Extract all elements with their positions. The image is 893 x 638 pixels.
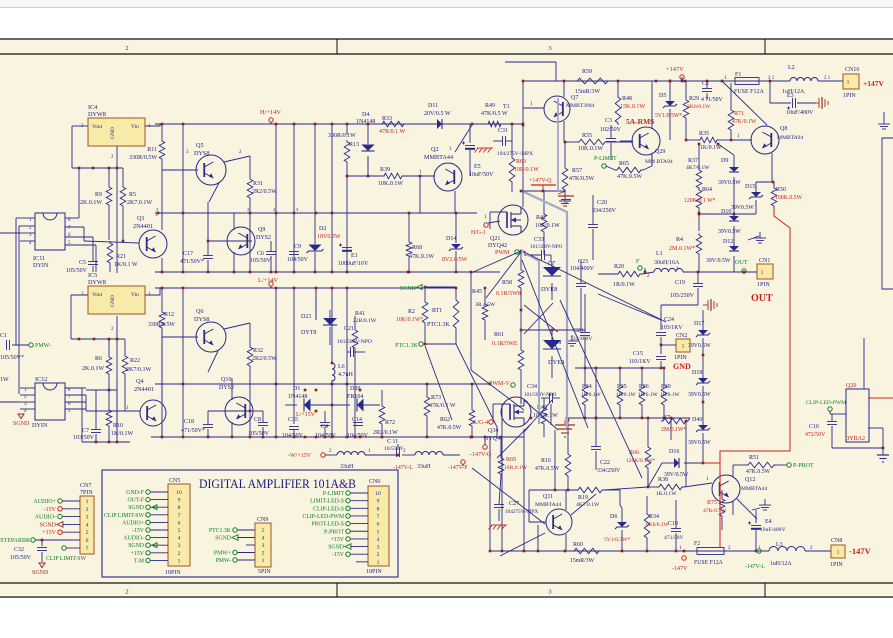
capacitor C3: [600, 118, 622, 160]
svg-text:1R/0.1W: 1R/0.1W: [638, 392, 659, 398]
wire interconnect 3: [511, 123, 514, 141]
svg-text:L3: L3: [776, 542, 783, 548]
wire OUT rail: [598, 272, 757, 274]
svg-text:R61: R61: [494, 332, 504, 338]
svg-text:2K7.0.1W: 2K7.0.1W: [127, 200, 152, 206]
svg-text:C21: C21: [344, 326, 354, 332]
wire bottom rail H: [155, 271, 500, 273]
svg-text:5: 5: [377, 529, 380, 535]
svg-text:FR104: FR104: [347, 394, 363, 400]
resistor R64: [684, 187, 716, 231]
resistor R50: [756, 181, 803, 208]
svg-text:105/50V: 105/50V: [10, 555, 32, 561]
zener D5: [655, 80, 682, 140]
transistor Q29: [620, 81, 673, 166]
resistor R16: [535, 419, 571, 492]
junction D-chain mid: [698, 213, 756, 216]
resistor R42: [535, 191, 560, 255]
svg-text:5: 5: [86, 530, 89, 536]
thermistor RT1: [424, 286, 459, 346]
svg-text:Q7: Q7: [571, 95, 578, 101]
fuse F2: [679, 541, 731, 566]
svg-text:-147V-L: -147V-L: [745, 564, 765, 570]
svg-text:R58: R58: [502, 280, 512, 286]
wire diag F: [560, 300, 642, 478]
svg-text:47K.0.5W: 47K.0.5W: [617, 174, 642, 180]
svg-text:471/50V*: 471/50V*: [180, 259, 204, 265]
svg-text:0.1R/5WE: 0.1R/5WE: [492, 341, 518, 347]
resistor R55: [564, 133, 633, 152]
svg-text:R37: R37: [688, 158, 698, 164]
svg-text:2M.0.1W*: 2M.0.1W*: [669, 246, 695, 252]
svg-text:E1: E1: [351, 253, 358, 259]
zener D14: [442, 213, 468, 272]
svg-text:D40: D40: [692, 417, 702, 423]
svg-text:1: 1: [761, 270, 764, 276]
resistor R10: [106, 389, 133, 442]
svg-text:P-LIMIT: P-LIMIT: [323, 491, 345, 497]
capacitor C14: [347, 417, 369, 439]
resistor R71: [728, 83, 757, 132]
transistor Q9: [208, 213, 271, 272]
svg-text:10: 10: [176, 490, 182, 496]
wire diag A: [524, 252, 666, 322]
svg-text:6: 6: [178, 520, 181, 526]
resistor R2: [396, 287, 428, 344]
capacitor C17: [180, 202, 213, 272]
capacitor C11: [384, 439, 406, 457]
ground C28: [566, 335, 578, 346]
svg-text:C4: C4: [321, 424, 328, 430]
capacitor C7: [73, 380, 118, 443]
wire diag G: [497, 424, 531, 458]
svg-text:1K/0.1W: 1K/0.1W: [700, 145, 722, 151]
svg-text:AUDIO+: AUDIO+: [33, 499, 56, 505]
svg-text:OUT: OUT: [751, 293, 773, 304]
resistor R45: [470, 271, 496, 370]
resistor R32: [247, 345, 277, 437]
svg-text:1: 1: [682, 344, 685, 350]
svg-text:C3: C3: [605, 118, 612, 124]
svg-text:PROT-LED-S: PROT-LED-S: [311, 522, 344, 528]
inductor L1: [647, 251, 683, 279]
svg-text:AUDIO-: AUDIO-: [35, 515, 56, 521]
wire diag C: [471, 251, 521, 273]
svg-text:1: 1: [86, 499, 89, 505]
svg-text:D5: D5: [659, 93, 666, 99]
svg-text:39V0.5W: 39V0.5W: [731, 205, 754, 211]
capacitor C10: [664, 500, 684, 551]
resistor R6: [82, 339, 112, 390]
zener D16: [648, 448, 704, 487]
svg-text:L1: L1: [656, 251, 663, 257]
capacitor E1: [338, 244, 369, 268]
svg-text:C17: C17: [183, 251, 193, 257]
svg-text:2K7/0.1W: 2K7/0.1W: [126, 367, 152, 373]
svg-text:CLIP-LED-PWM: CLIP-LED-PWM: [806, 400, 846, 406]
svg-text:AUDIO+: AUDIO+: [122, 520, 144, 526]
svg-text:PMW-: PMW-: [35, 343, 51, 349]
capacitor C8: [248, 410, 270, 437]
bus gray vertical: [524, 98, 567, 428]
svg-text:R71: R71: [734, 111, 744, 117]
capacitor E3: [769, 80, 816, 116]
node PTC1.3K: [395, 342, 423, 349]
resistor R19: [556, 487, 620, 508]
svg-text:101/500V-NPO: 101/500V-NPO: [524, 392, 557, 398]
svg-text:D16: D16: [669, 449, 679, 455]
wire D8 row: [520, 329, 585, 332]
node PMW-: [0, 333, 51, 383]
transistor Q2: [404, 104, 510, 213]
capacitor C22: [591, 418, 621, 474]
ground SGND IC12: [13, 414, 30, 427]
svg-text:+147V: +147V: [666, 66, 684, 73]
svg-text:4: 4: [178, 536, 181, 542]
node PWM-V: [489, 381, 515, 420]
svg-text:2N4401: 2N4401: [134, 386, 154, 393]
ground Q7: [559, 195, 571, 206]
resistor R25: [616, 367, 637, 420]
svg-text:+15V: +15V: [42, 530, 56, 536]
svg-text:9: 9: [178, 498, 181, 504]
svg-text:C20: C20: [597, 200, 607, 206]
svg-text:100K.0.5W: 100K.0.5W: [775, 195, 803, 201]
svg-text:L/+15V: L/+15V: [296, 412, 316, 418]
node -147V-P: [448, 460, 467, 471]
wire top rail L: [155, 287, 456, 289]
svg-text:IC11: IC11: [33, 255, 45, 262]
svg-text:47K.0.5W: 47K.0.5W: [437, 425, 462, 431]
inductor L3: [758, 542, 831, 567]
svg-text:-15V: -15V: [332, 552, 345, 558]
resistor R9: [80, 168, 112, 240]
resistor R48: [615, 80, 645, 125]
svg-text:39V/0.5W: 39V/0.5W: [706, 258, 731, 264]
wire diag E: [598, 294, 661, 320]
svg-text:10: 10: [375, 491, 381, 497]
zener D2: [307, 226, 341, 253]
svg-text:C23: C23: [578, 259, 588, 265]
svg-text:R20: R20: [614, 264, 624, 270]
svg-text:R33: R33: [382, 116, 392, 122]
wire red main right: [703, 208, 790, 547]
svg-text:C9: C9: [294, 244, 301, 250]
svg-text:39V0.5W: 39V0.5W: [718, 180, 741, 186]
resistor R49: [481, 103, 523, 127]
svg-text:4.7uH: 4.7uH: [338, 372, 354, 378]
svg-text:5: 5: [178, 528, 181, 534]
ground Q20: [877, 448, 889, 462]
resistor R20: [613, 264, 642, 288]
svg-text:2K.0.1W: 2K.0.1W: [80, 200, 102, 206]
svg-text:7: 7: [86, 546, 89, 552]
svg-text:Vout: Vout: [92, 124, 103, 130]
svg-text:R64: R64: [702, 187, 712, 193]
svg-text:39V0.5W: 39V0.5W: [688, 392, 711, 398]
capacitor C31: [493, 128, 533, 157]
svg-text:CN7: CN7: [80, 483, 91, 489]
svg-text:C6: C6: [257, 251, 264, 257]
capacitor C19: [670, 271, 703, 305]
svg-text:+15V: +15V: [131, 551, 145, 557]
resistor R57: [562, 141, 594, 196]
svg-text:F1: F1: [735, 72, 741, 78]
svg-text:10K.0.1W: 10K.0.1W: [578, 146, 603, 152]
capacitor C35: [282, 417, 304, 439]
svg-text:D9: D9: [721, 158, 728, 164]
capacitor C23: [570, 259, 595, 330]
svg-text:R45: R45: [472, 289, 482, 295]
svg-text:OUT-F: OUT-F: [127, 498, 144, 504]
resistor R39: [346, 156, 422, 187]
svg-text:2K.0.1W: 2K.0.1W: [82, 366, 104, 372]
capacitor C2: [701, 80, 724, 103]
svg-text:CN6: CN6: [369, 479, 380, 485]
wire interconnect 4: [530, 417, 673, 440]
ground E3: [816, 97, 828, 109]
svg-text:1uH/12A: 1uH/12A: [770, 561, 792, 567]
capacitor C20: [588, 195, 617, 260]
svg-text:R9: R9: [95, 192, 102, 198]
svg-text:MMBTA44: MMBTA44: [535, 502, 561, 508]
resistor R75: [703, 490, 727, 530]
svg-text:DYBA2: DYBA2: [845, 436, 865, 442]
wire top rail H: [155, 123, 523, 125]
wire diag M: [651, 153, 653, 166]
node STEPARBR: [0, 538, 80, 544]
wire verticals H block: [183, 124, 347, 272]
wire diag K2: [472, 468, 545, 524]
svg-text:330R/0.1W: 330R/0.1W: [328, 133, 356, 139]
svg-text:R72: R72: [385, 420, 395, 426]
connector CN8: [830, 538, 872, 568]
svg-text:47R/0.1 W: 47R/0.1 W: [379, 129, 406, 135]
svg-text:9: 9: [377, 499, 380, 505]
svg-text:334/250V: 334/250V: [592, 208, 617, 214]
svg-text:R48: R48: [622, 96, 632, 102]
wire diag L: [449, 125, 472, 152]
capacitor C27: [494, 476, 538, 521]
connector CN5: [104, 478, 190, 576]
svg-text:AUDIO-: AUDIO-: [123, 536, 144, 542]
resistor R24: [581, 367, 602, 420]
svg-text:D4: D4: [362, 112, 369, 118]
junctions L: [161, 287, 474, 457]
resistor R63: [509, 140, 539, 192]
right rectangle: [882, 138, 893, 289]
svg-text:2R2/0.1W: 2R2/0.1W: [373, 430, 398, 436]
wire verticals L block: [183, 288, 347, 437]
svg-text:10R/0.1W: 10R/0.1W: [533, 413, 558, 419]
svg-text:1: 1: [178, 558, 181, 564]
svg-text:R69: R69: [506, 457, 516, 463]
svg-text:102/50V: 102/50V: [600, 127, 622, 133]
wire diag D: [486, 252, 521, 298]
svg-text:10PIN: 10PIN: [165, 570, 181, 576]
resistor R41: [352, 311, 377, 437]
wire mid rail H: [155, 207, 477, 213]
svg-text:E5: E5: [474, 164, 481, 170]
resistor R13: [328, 133, 359, 164]
svg-text:D2: D2: [319, 226, 326, 232]
node -147V mid: [672, 550, 688, 572]
transistor Q10: [208, 377, 253, 437]
svg-text:101/500V-NPO: 101/500V-NPO: [530, 244, 563, 250]
connector CN2: [660, 333, 690, 361]
svg-text:4: 4: [262, 536, 265, 542]
svg-text:Q29: Q29: [655, 149, 665, 155]
node +147V-Q: [520, 178, 565, 192]
resistor R51: [733, 455, 787, 475]
svg-text:D14: D14: [446, 236, 456, 242]
svg-text:R6: R6: [95, 356, 102, 362]
svg-text:1: 1: [262, 558, 265, 564]
svg-text:6: 6: [377, 522, 380, 528]
resistor R72: [373, 390, 398, 437]
svg-text:P-PROT: P-PROT: [324, 529, 344, 535]
svg-text:4: 4: [86, 522, 89, 528]
svg-text:105/250V: 105/250V: [670, 293, 695, 299]
regulator IC5: [81, 272, 151, 314]
svg-text:C 11: C 11: [387, 439, 398, 445]
resistor R60: [570, 542, 601, 564]
svg-text:2N4401: 2N4401: [133, 223, 153, 230]
svg-text:PTC1.3K: PTC1.3K: [209, 528, 232, 534]
svg-text:8: 8: [377, 506, 380, 512]
svg-text:OUT: OUT: [735, 259, 748, 266]
svg-text:FUSE F12A: FUSE F12A: [734, 89, 765, 95]
wire diag H: [571, 494, 596, 515]
svg-text:R2: R2: [408, 309, 415, 315]
svg-text:PTC1.3K: PTC1.3K: [427, 322, 451, 328]
svg-text:R31: R31: [253, 181, 263, 187]
svg-text:2: 2: [377, 552, 380, 558]
svg-text:GND-F: GND-F: [126, 490, 144, 496]
svg-text:471/50V*: 471/50V*: [181, 428, 205, 434]
resistor R4: [669, 212, 702, 272]
regulator IC4: [81, 104, 151, 146]
svg-text:-147V: -147V: [672, 566, 688, 572]
wire diag K: [500, 533, 545, 556]
svg-text:334/250V: 334/250V: [597, 468, 621, 474]
wire mid rail L: [86, 406, 140, 411]
svg-text:D17: D17: [694, 321, 704, 327]
svg-text:T-M: T-M: [134, 558, 144, 564]
capacitor C6: [250, 241, 276, 272]
resistor R37: [686, 143, 710, 190]
wire diag B: [522, 260, 588, 428]
svg-text:1PIN: 1PIN: [843, 93, 856, 99]
resistor R43: [533, 398, 558, 437]
svg-text:R49: R49: [485, 103, 495, 109]
svg-text:10K/0.1W*: 10K/0.1W*: [396, 317, 423, 323]
svg-text:+15V: +15V: [331, 537, 345, 543]
resistor R7: [661, 415, 690, 433]
svg-text:CLIP LIMIT-SW: CLIP LIMIT-SW: [104, 513, 145, 519]
svg-text:1000uF/16V: 1000uF/16V: [338, 261, 369, 267]
svg-text:1R/0.1W: 1R/0.1W: [660, 392, 681, 398]
svg-text:8V2.0/5W: 8V2.0/5W: [442, 257, 468, 263]
svg-text:P-PROT: P-PROT: [793, 463, 814, 469]
svg-text:10PIN: 10PIN: [366, 569, 382, 575]
ground E4: [752, 499, 771, 510]
svg-text:1K/0.1 W: 1K/0.1 W: [114, 262, 138, 268]
svg-text:3: 3: [178, 543, 181, 549]
svg-text:C33: C33: [534, 237, 544, 243]
svg-text:R51: R51: [749, 455, 759, 461]
svg-text:R22: R22: [130, 358, 140, 364]
diode D11: [406, 103, 486, 129]
transistor Q7: [523, 80, 594, 142]
svg-text:47K.0.1W: 47K.0.1W: [409, 254, 434, 260]
svg-text:R55: R55: [582, 133, 592, 139]
bus gray diag 2: [566, 212, 568, 428]
resistor R62: [437, 384, 475, 437]
svg-text:C7: C7: [82, 428, 89, 434]
svg-text:SGND: SGND: [328, 545, 344, 551]
svg-text:C19: C19: [675, 280, 685, 286]
svg-text:39V0.5W: 39V0.5W: [718, 229, 741, 235]
svg-text:7: 7: [377, 514, 380, 520]
svg-text:D12: D12: [723, 239, 733, 245]
svg-text:-15V: -15V: [44, 507, 57, 513]
svg-text:C18: C18: [184, 419, 194, 425]
wire rail L mid2: [155, 383, 491, 386]
bus gray diag 1: [521, 251, 539, 424]
wire diag N: [425, 346, 452, 420]
capacitor C15: [629, 351, 651, 365]
svg-text:-147V-Q: -147V-Q: [470, 452, 492, 458]
svg-text:C34: C34: [527, 384, 537, 390]
svg-text:4 71/50V: 4 71/50V: [701, 97, 724, 103]
ground mid: [558, 191, 574, 207]
svg-text:DYS8: DYS8: [194, 316, 209, 323]
transistor Q11: [529, 490, 572, 551]
svg-text:D6: D6: [610, 514, 617, 520]
svg-text:R42: R42: [536, 215, 546, 221]
node L/+15V: [296, 410, 317, 418]
mosfet Q34: [484, 397, 531, 442]
svg-text:105/50V: 105/50V: [250, 258, 272, 264]
svg-text:C8: C8: [254, 417, 261, 423]
svg-text:1N4148: 1N4148: [356, 119, 375, 125]
diode D8: [543, 330, 564, 378]
diode D9: [717, 143, 742, 188]
node P-PROT: [787, 463, 814, 469]
svg-text:4K7/0.1W: 4K7/0.1W: [686, 165, 710, 171]
svg-text:1PIN: 1PIN: [674, 355, 687, 361]
junctions H: [157, 123, 525, 274]
wire interconnect 9: [660, 354, 705, 404]
ground SGND C32: [32, 563, 49, 576]
svg-text:2: 2: [125, 589, 128, 596]
svg-text:R29: R29: [689, 96, 699, 102]
svg-text:DYW8: DYW8: [88, 111, 106, 118]
svg-text:7PIN: 7PIN: [80, 490, 93, 496]
svg-text:DYIN: DYIN: [32, 422, 48, 429]
svg-text:MMBTA44: MMBTA44: [741, 486, 767, 492]
svg-text:1PIN: 1PIN: [830, 562, 843, 568]
svg-text:LIMIT-LED-S: LIMIT-LED-S: [310, 499, 344, 505]
node CLIP-LED-PWM: [806, 400, 846, 414]
svg-text:C16: C16: [809, 424, 819, 430]
svg-text:103/1KV: 103/1KV: [629, 359, 651, 365]
svg-text:10uF/400V: 10uF/400V: [786, 110, 814, 116]
svg-text:330R/0.5W: 330R/0.5W: [129, 155, 157, 161]
connector CN9: [209, 517, 271, 575]
svg-text:D1: D1: [293, 386, 300, 392]
